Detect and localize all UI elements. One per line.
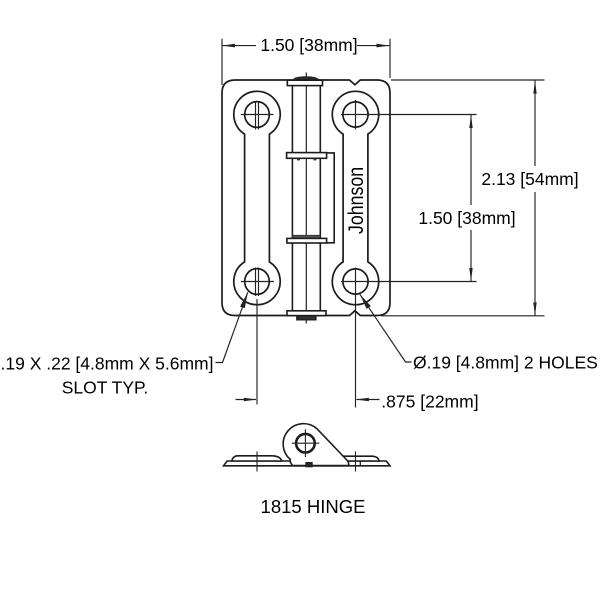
pin bottom cap [297,316,316,320]
pin barrel tube [292,86,320,311]
svg-text:1.50 [38mm]: 1.50 [38mm] [418,208,515,228]
extension below bottom-left hole [256,299,258,405]
svg-text:.19 X .22 [4.8mm X 5.6mm]: .19 X .22 [4.8mm X 5.6mm] [1,353,214,373]
right dimension 1.50 [38mm] [470,115,472,281]
hinge body plate outline with centering notches [222,80,390,316]
pin bottom flange [287,311,326,316]
crosshair top-right hole + extension to 1.50 dim [341,100,477,130]
right leaf knuckle edge [327,153,335,243]
knuckle teardrop [283,424,349,466]
crosshair top-left hole [241,102,274,130]
dark ticks below upper collar [297,159,300,161]
knuckle collar lower [287,238,327,243]
svg-text:2.13 [54mm]: 2.13 [54mm] [481,169,578,189]
knuckle collar upper [287,153,327,159]
pin hole side view [296,434,315,453]
svg-text:1815 HINGE: 1815 HINGE [261,496,366,517]
phantom centerline left [256,452,258,472]
left slot boss (dog-bone emboss) [234,91,280,304]
right dimension 2.13 [54mm] [381,80,545,316]
phantom centerline right [355,451,357,471]
small pin tab below plate [306,463,312,467]
hole top-right [343,102,368,127]
top dimension 1.50 [38mm] [222,39,391,85]
holes label leader [360,294,412,362]
right slot boss (dog-bone emboss) [332,91,378,304]
svg-text:Ø.19 [4.8mm] 2 HOLES: Ø.19 [4.8mm] 2 HOLES [413,353,598,373]
right boss [340,456,379,461]
pin top flange [287,80,322,85]
bottom dimension .875 [22mm] [236,399,380,401]
svg-text:Johnson: Johnson [345,167,369,234]
leaf joint line on plate [359,461,361,466]
slot hole top-left [245,102,270,128]
svg-text:.875 [22mm]: .875 [22mm] [381,392,478,412]
slot label leader [216,292,248,362]
svg-text:1.50 [38mm]: 1.50 [38mm] [260,35,357,55]
pin centerline [305,73,307,324]
shading band above lower collar [292,235,320,238]
plate bottom line under knuckle (redraw) [293,465,349,467]
pin head dome [292,76,320,80]
crosshair bottom-left hole [241,268,274,297]
slot hole bottom-left [245,269,270,295]
svg-text:SLOT TYP.: SLOT TYP. [62,378,149,398]
hole bottom-right [343,269,368,294]
plate [224,461,391,466]
left boss [232,456,282,461]
crosshair side view [292,429,320,457]
crosshair bottom-right hole + extensions [341,268,477,408]
